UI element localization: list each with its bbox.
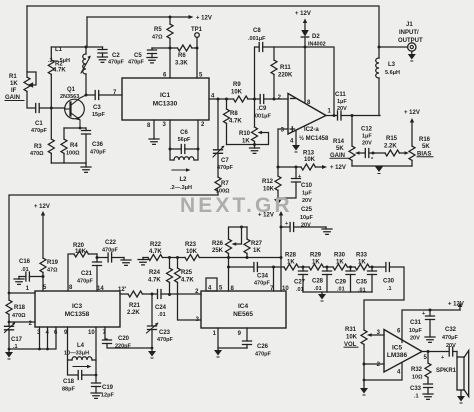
svg-text:10—33μH: 10—33μH — [64, 351, 89, 357]
svg-text:20V: 20V — [362, 141, 372, 147]
svg-text:470Ω: 470Ω — [12, 313, 26, 319]
svg-text:C29: C29 — [335, 280, 347, 286]
svg-text:25K: 25K — [212, 248, 224, 254]
wire IC5 pin6 supply — [402, 310, 460, 343]
svg-text:C3: C3 — [93, 105, 101, 111]
svg-text:C36: C36 — [92, 142, 104, 148]
capacitor C17 (variable) — [5, 322, 23, 350]
capacitor C3 — [86, 91, 122, 119]
ground left rail — [5, 348, 13, 360]
svg-text:R31: R31 — [345, 327, 357, 333]
svg-text:4.7K: 4.7K — [148, 278, 161, 284]
op IC4 NE565 box — [201, 278, 286, 328]
svg-text:14: 14 — [97, 286, 104, 292]
resistor R7 — [215, 177, 230, 195]
diode D2 and +12V — [295, 11, 326, 49]
ground C2 — [98, 57, 108, 62]
op IC3 MC1358 box — [35, 291, 120, 327]
svg-text:R16: R16 — [419, 137, 431, 143]
svg-text:MC1358: MC1358 — [65, 311, 90, 318]
svg-text:R14: R14 — [333, 139, 345, 145]
wire opamp output — [326, 115, 380, 117]
wire IF bus — [143, 257, 281, 259]
capacitor C36 — [82, 128, 107, 163]
svg-text:470pF: 470pF — [255, 352, 272, 358]
ground R12 — [274, 199, 282, 207]
capacitor C19 — [91, 360, 114, 399]
wire opamp pin8 — [304, 47, 306, 102]
svg-text:20V: 20V — [337, 106, 347, 112]
wire IC5 output — [422, 351, 457, 353]
svg-text:L2: L2 — [179, 177, 187, 183]
svg-text:IC1: IC1 — [160, 92, 171, 99]
pin labels IC4 — [195, 286, 289, 338]
resistor R12 — [262, 167, 281, 199]
svg-text:+: + — [298, 174, 301, 180]
svg-text:470Ω: 470Ω — [30, 151, 44, 157]
svg-text:C27: C27 — [294, 280, 306, 286]
svg-text:C21: C21 — [81, 271, 93, 277]
resistor R24 — [148, 258, 173, 295]
wire R6 rail — [152, 47, 197, 49]
svg-text:R6: R6 — [178, 53, 186, 59]
capacitor C20 — [103, 327, 153, 350]
wire opamp pin3 — [278, 129, 288, 167]
svg-text:C30: C30 — [383, 279, 395, 285]
resistor R25 — [175, 258, 195, 295]
svg-text:C12: C12 — [361, 127, 373, 133]
svg-text:C11: C11 — [335, 92, 346, 98]
svg-text:470pF: 470pF — [31, 128, 48, 134]
svg-text:10K: 10K — [304, 157, 316, 163]
wire IC5 pin2 — [364, 363, 384, 365]
svg-text:.C9: .C9 — [257, 106, 267, 112]
svg-text:R25: R25 — [181, 270, 193, 276]
svg-text:C2: C2 — [112, 53, 120, 59]
svg-text:2.2K: 2.2K — [127, 310, 140, 316]
svg-text:R3: R3 — [34, 144, 42, 150]
capacitor C32 — [441, 327, 459, 361]
svg-text:+ 12V: + 12V — [34, 204, 50, 210]
svg-text:10K: 10K — [231, 90, 243, 96]
capacitor C21 — [77, 254, 102, 291]
svg-text:C25: C25 — [301, 207, 313, 213]
svg-text:.001μF: .001μF — [248, 36, 266, 42]
resistor R13 — [277, 151, 346, 172]
wire bottom pins rail — [9, 327, 56, 349]
inductor L3 — [376, 47, 400, 116]
resistor R28 — [284, 253, 309, 271]
svg-text:½ MC1458: ½ MC1458 — [299, 135, 329, 142]
capacitor C28 — [312, 267, 332, 292]
capacitor C23 (variable) — [147, 294, 174, 348]
resistor R22 — [148, 242, 162, 261]
svg-text:+ 12V: + 12V — [448, 302, 464, 308]
svg-text:1μF: 1μF — [337, 99, 347, 105]
potentiometer R16 — [404, 110, 433, 166]
svg-text:2.2K: 2.2K — [384, 144, 397, 150]
svg-text:R22: R22 — [150, 242, 162, 248]
svg-text:R21: R21 — [129, 303, 141, 309]
svg-text:C26: C26 — [257, 344, 269, 350]
svg-text:.01: .01 — [21, 267, 29, 273]
wire IC4 pin8 — [228, 258, 230, 292]
wire IC3 pin12 to IC4 pin2 — [120, 293, 201, 295]
svg-text:1K: 1K — [242, 139, 250, 145]
potentiometer R14 — [330, 116, 365, 167]
capacitor C16 — [14, 259, 45, 284]
svg-text:L4: L4 — [77, 343, 85, 349]
ground IC1 pin8 — [149, 120, 159, 144]
svg-text:+: + — [285, 221, 288, 227]
wire R1 bottom — [27, 92, 35, 109]
svg-text:L3: L3 — [388, 62, 396, 68]
capacitor C22 — [96, 240, 132, 265]
svg-text:C28: C28 — [312, 279, 324, 285]
svg-text:C10: C10 — [301, 183, 313, 189]
svg-text:R18: R18 — [14, 305, 26, 311]
svg-text:470pF: 470pF — [90, 150, 107, 156]
capacitor C27 — [294, 267, 308, 293]
op-amp IC2-a — [278, 94, 332, 145]
capacitor C33 — [410, 377, 433, 399]
svg-text:C8: C8 — [253, 28, 261, 34]
svg-text:470pF: 470pF — [102, 248, 119, 254]
wire R1 top — [26, 6, 28, 77]
wire +12V to pin10 — [258, 211, 283, 291]
svg-text:5K: 5K — [336, 146, 344, 152]
svg-text:C6: C6 — [180, 130, 188, 136]
wire top loop — [51, 46, 102, 48]
resistor R29 — [309, 253, 333, 271]
svg-text:C17: C17 — [11, 337, 23, 343]
speaker SPKR1 — [436, 351, 469, 404]
+12V rail top — [87, 15, 212, 22]
svg-text:470μF: 470μF — [442, 335, 459, 341]
capacitor C30 — [364, 263, 404, 331]
svg-text:10μF: 10μF — [409, 328, 422, 334]
svg-text:NEXT.GR: NEXT.GR — [180, 194, 293, 217]
svg-text:10μF: 10μF — [300, 215, 313, 221]
potentiometer R31 — [344, 327, 384, 364]
transistor Q1 — [65, 95, 87, 128]
svg-text:47Ω: 47Ω — [152, 35, 163, 41]
wire emitter ground rail — [51, 162, 86, 164]
svg-text:+ 12V: + 12V — [295, 11, 311, 17]
capacitor C5 — [128, 48, 157, 66]
wire R2 column — [50, 47, 52, 139]
svg-text:2N3563: 2N3563 — [60, 94, 79, 100]
wire IC1 top pins — [170, 48, 197, 78]
svg-text:+: + — [441, 355, 444, 361]
svg-text:C20: C20 — [118, 336, 130, 342]
svg-text:INPUT/: INPUT/ — [399, 30, 419, 36]
inductor L1 — [48, 47, 91, 95]
+12V feed bottom section — [34, 204, 50, 258]
svg-text:NE565: NE565 — [233, 311, 253, 318]
svg-text:3.3K: 3.3K — [175, 61, 188, 67]
capacitor C1 — [31, 104, 65, 135]
svg-text:C1: C1 — [35, 121, 43, 127]
resistor R4 — [61, 128, 80, 163]
svg-text:10K: 10K — [346, 335, 358, 341]
svg-text:J1: J1 — [406, 22, 413, 28]
svg-text:001μF: 001μF — [255, 114, 272, 120]
svg-text:R24: R24 — [149, 270, 161, 276]
svg-text:R11: R11 — [280, 65, 291, 71]
svg-text:IC2-a: IC2-a — [304, 127, 319, 133]
wire emitter node — [64, 127, 86, 129]
potentiometer R26 — [212, 226, 247, 258]
svg-text:470pF: 470pF — [157, 337, 174, 343]
svg-text:4.7K: 4.7K — [229, 119, 242, 125]
svg-text:R27: R27 — [251, 241, 263, 247]
svg-text:20V: 20V — [302, 198, 312, 204]
resistor R3 — [30, 139, 54, 163]
svg-text:.2—.3μH: .2—.3μH — [170, 185, 192, 191]
svg-text:10: 10 — [282, 286, 289, 292]
inductor L4 — [64, 327, 96, 368]
wire IC3 pin2 — [9, 321, 35, 323]
svg-text:470pF: 470pF — [217, 165, 234, 171]
svg-text:C32: C32 — [445, 327, 457, 333]
svg-text:5K: 5K — [422, 144, 430, 150]
svg-text:20V: 20V — [301, 223, 311, 229]
svg-text:R9: R9 — [233, 82, 241, 88]
svg-text:1K: 1K — [336, 260, 344, 266]
resistor R15 — [384, 136, 409, 156]
inductor L2 — [170, 149, 198, 191]
svg-text:IN4002: IN4002 — [308, 42, 326, 48]
svg-text:10K: 10K — [75, 249, 87, 255]
svg-text:R29: R29 — [310, 253, 322, 259]
resistor R18 — [6, 293, 26, 322]
svg-text:20V: 20V — [410, 336, 420, 342]
svg-text:R12: R12 — [262, 179, 274, 185]
wire IC1 pin4 to opamp — [209, 98, 288, 100]
svg-text:C16: C16 — [19, 259, 31, 265]
ground cap row — [318, 292, 326, 302]
capacitor C24 — [155, 290, 167, 319]
svg-text:47Ω: 47Ω — [47, 268, 58, 274]
svg-text:.01: .01 — [158, 312, 166, 318]
resistor R9 — [231, 82, 248, 102]
svg-text:12′: 12′ — [118, 287, 127, 293]
svg-text:C22: C22 — [105, 240, 117, 246]
ground opamp pin4 — [292, 131, 300, 153]
capacitor C11 — [335, 92, 347, 120]
connector J1 — [378, 22, 424, 62]
svg-text:R13: R13 — [303, 151, 315, 157]
resistor R23 — [185, 242, 199, 261]
capacitor C25 — [281, 207, 332, 234]
svg-text:C7: C7 — [221, 158, 229, 164]
svg-text:10K: 10K — [186, 249, 198, 255]
+12V arrow right — [448, 302, 464, 311]
ground C23 — [148, 347, 156, 359]
svg-text:4.7K: 4.7K — [181, 278, 194, 284]
svg-text:220pF: 220pF — [115, 344, 132, 350]
wire IC5 ground rail — [364, 363, 402, 381]
svg-text:+: + — [422, 311, 425, 317]
svg-text:.01: .01 — [314, 286, 322, 292]
svg-text:C19: C19 — [102, 385, 114, 391]
svg-text:D2: D2 — [312, 34, 320, 40]
svg-text:R4: R4 — [70, 143, 78, 149]
wire R1 wiper loop — [27, 72, 36, 87]
ground IC5 — [360, 380, 368, 396]
capacitor C8 — [248, 28, 266, 52]
pin labels IC1 — [113, 73, 215, 130]
svg-text:4.7K: 4.7K — [53, 68, 66, 74]
svg-text:1K: 1K — [253, 248, 261, 254]
svg-text:470pF: 470pF — [254, 281, 271, 287]
svg-text:C5: C5 — [134, 53, 142, 59]
svg-text:.1: .1 — [387, 286, 392, 292]
capacitor C26 — [243, 328, 272, 358]
op-amp IC5 LM386 — [377, 329, 428, 376]
capacitor C29 — [335, 267, 355, 293]
svg-text:LM386: LM386 — [387, 352, 408, 359]
ground bias rail — [375, 167, 383, 175]
resistor R32 — [411, 352, 431, 381]
ground bus left — [138, 258, 148, 265]
resistor R1 — [5, 74, 30, 101]
pin labels IC3 — [26, 285, 127, 336]
wire IC3 pin1 — [9, 292, 35, 294]
resistor R11 — [271, 47, 293, 99]
svg-text:1μF: 1μF — [302, 191, 312, 197]
resistor R27 — [244, 227, 263, 259]
svg-text:R5: R5 — [154, 27, 162, 33]
capacitor C12 — [361, 127, 385, 164]
ground R10 — [250, 145, 260, 154]
svg-text:SPKR1: SPKR1 — [436, 368, 457, 374]
svg-text:R15: R15 — [386, 136, 398, 142]
svg-text:10Ω: 10Ω — [412, 375, 423, 381]
svg-text:R26: R26 — [212, 241, 224, 247]
wire detector line to IF section — [9, 195, 218, 293]
capacitor C7 (variable) — [213, 99, 234, 177]
svg-text:C35: C35 — [356, 280, 368, 286]
svg-text:470pF: 470pF — [77, 279, 94, 285]
svg-text:470pF: 470pF — [128, 60, 145, 66]
svg-text:R19: R19 — [47, 260, 59, 266]
svg-text:C23: C23 — [159, 330, 171, 336]
svg-text:20V: 20V — [446, 343, 456, 349]
svg-text:1K: 1K — [10, 81, 18, 87]
svg-text:IC3: IC3 — [72, 303, 83, 310]
potentiometer R10 — [227, 99, 269, 146]
svg-text:1μF: 1μF — [362, 134, 372, 140]
svg-text:R28: R28 — [285, 253, 297, 259]
svg-text:15pF: 15pF — [92, 112, 105, 118]
feedback rail C8 — [255, 47, 335, 116]
svg-text:10K: 10K — [263, 187, 275, 193]
wire top rail to J1 — [27, 6, 379, 47]
svg-text:R33: R33 — [356, 253, 368, 259]
svg-text:.1: .1 — [414, 394, 419, 400]
svg-text:5.6μH: 5.6μH — [385, 70, 400, 76]
svg-text:C33: C33 — [410, 386, 422, 392]
svg-text:C18: C18 — [63, 379, 75, 385]
svg-text:R32: R32 — [411, 367, 423, 373]
svg-text:12pF: 12pF — [101, 393, 114, 399]
node base junction — [50, 107, 53, 110]
ground emitter rail — [81, 163, 91, 172]
resistor R6 — [175, 45, 192, 67]
capacitor C18 — [62, 360, 96, 393]
svg-text:IC5: IC5 — [392, 345, 403, 352]
svg-text:470pF: 470pF — [108, 60, 125, 66]
wire IC4 pin7 — [273, 267, 275, 291]
svg-text:R10: R10 — [239, 131, 251, 137]
svg-text:1K: 1K — [287, 260, 295, 266]
resistor R20 — [68, 243, 97, 291]
resistor R21 — [127, 291, 142, 316]
wire gain bias rail — [352, 165, 412, 167]
svg-text:100Ω: 100Ω — [66, 151, 80, 157]
wire IC4 pin3 — [178, 295, 202, 321]
capacitor C35 — [356, 267, 377, 294]
svg-text:R30: R30 — [334, 253, 346, 259]
svg-text:220K: 220K — [278, 73, 293, 79]
svg-text:IC4: IC4 — [238, 303, 249, 310]
svg-text:C31: C31 — [410, 320, 422, 326]
svg-text:+ 12V: + 12V — [196, 16, 212, 22]
svg-text:C24: C24 — [155, 305, 167, 311]
svg-text:88pF: 88pF — [62, 387, 75, 393]
svg-text:L1: L1 — [55, 47, 63, 53]
svg-text:IF: IF — [11, 88, 17, 94]
wire IC4 pin1 ground — [214, 328, 247, 358]
svg-text:R7: R7 — [221, 181, 229, 187]
wire +12V vertical feed — [86, 17, 88, 47]
svg-text:R23: R23 — [185, 242, 197, 248]
capacitor C9 — [255, 95, 272, 120]
svg-text:OUTPUT: OUTPUT — [398, 38, 423, 44]
svg-text:MC1330: MC1330 — [153, 101, 178, 108]
svg-text:1K: 1K — [358, 260, 366, 266]
capacitor C34 — [229, 263, 285, 287]
resistor R30 — [333, 253, 355, 271]
svg-text:R8: R8 — [230, 111, 238, 117]
svg-text:56pF: 56pF — [178, 137, 191, 143]
resistor R19 — [40, 258, 59, 291]
svg-text:Q1: Q1 — [67, 87, 76, 93]
resistor R2 — [48, 60, 66, 74]
capacitor C10 — [278, 166, 313, 205]
svg-text:R1: R1 — [9, 74, 17, 80]
wire cap row rail — [303, 291, 372, 293]
capacitor C2 — [98, 47, 125, 66]
svg-text:1K: 1K — [312, 260, 320, 266]
resistor R33 — [355, 253, 385, 271]
node L1 top — [85, 46, 88, 49]
resistor R8 — [224, 99, 243, 145]
test point TP1 — [191, 27, 203, 48]
svg-text:10: 10 — [88, 330, 95, 336]
svg-text:4.7K: 4.7K — [149, 249, 162, 255]
capacitor C6 — [169, 120, 200, 154]
svg-text:+ 12V: + 12V — [404, 110, 420, 116]
resistor R5 — [152, 16, 173, 49]
svg-text:C34: C34 — [257, 274, 269, 280]
svg-text:.3—.5μH: .3—.5μH — [48, 58, 70, 64]
capacitor C31 — [409, 309, 435, 343]
op IC1 MC1330 box — [122, 78, 209, 120]
svg-text:+ 12V: + 12V — [330, 165, 346, 171]
